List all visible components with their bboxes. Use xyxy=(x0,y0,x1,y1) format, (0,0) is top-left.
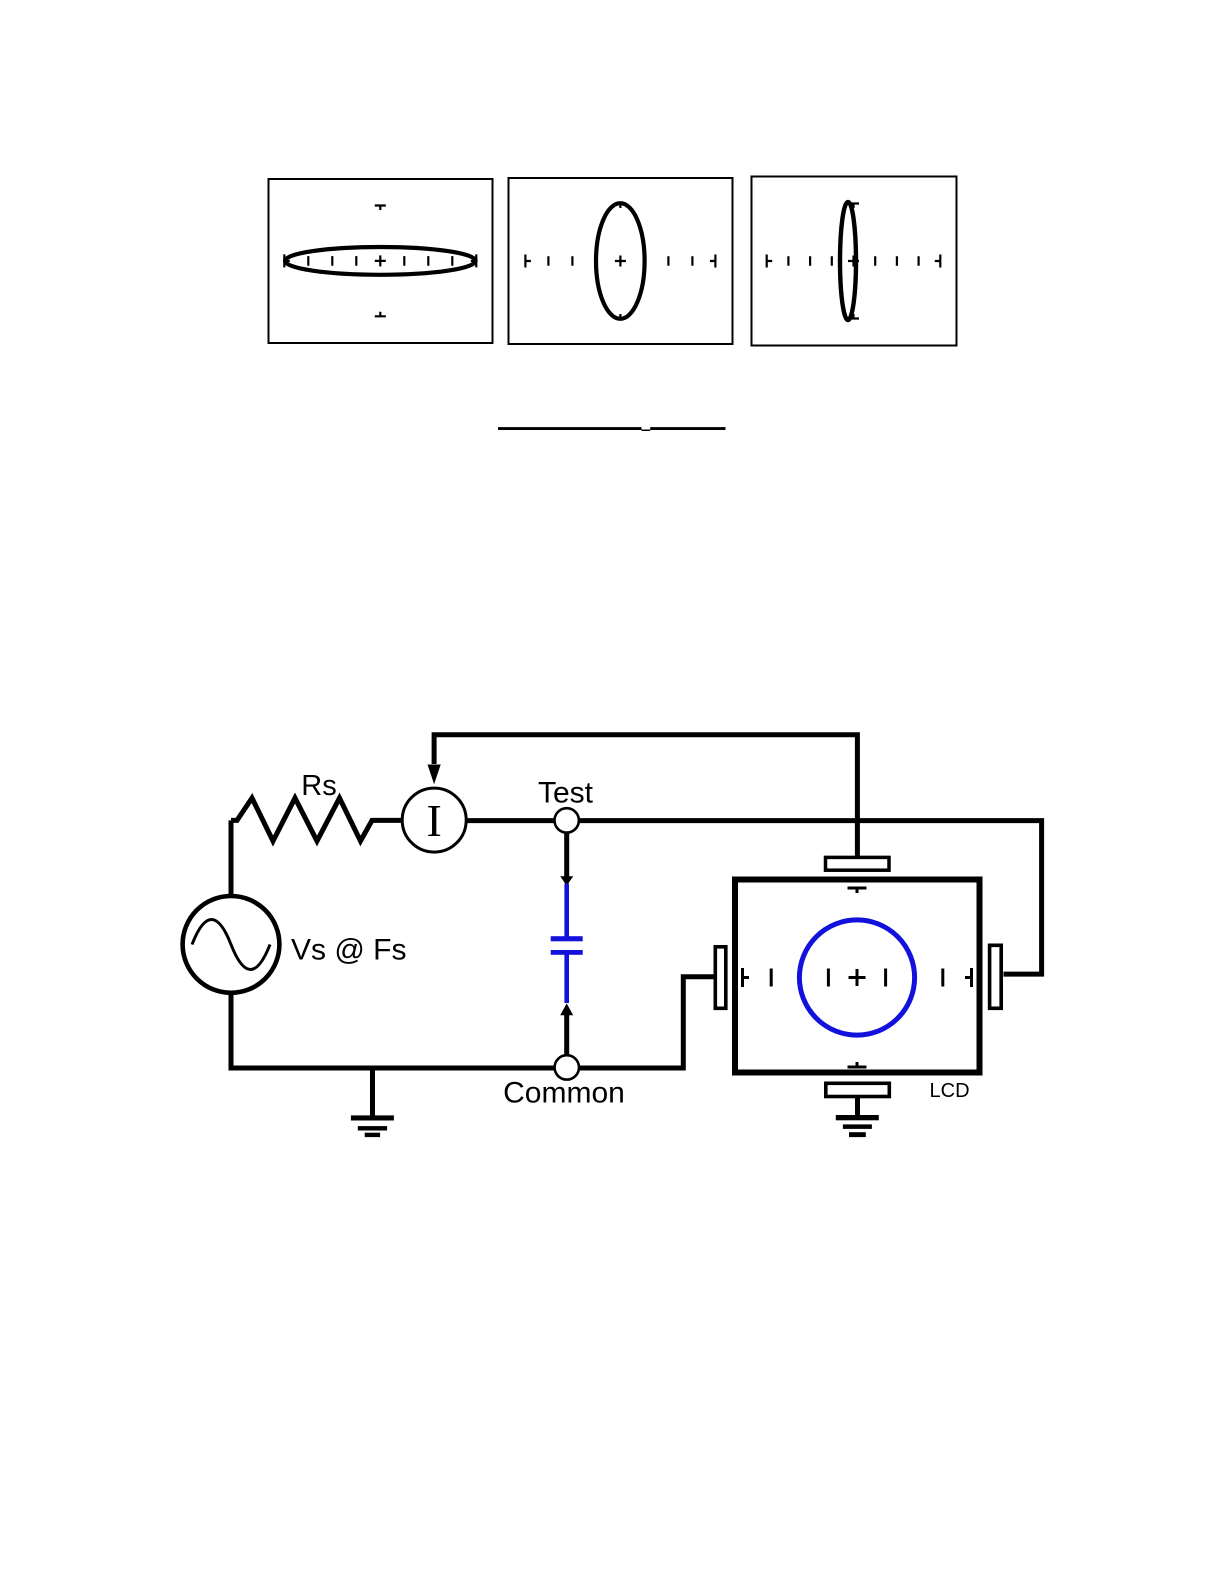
oscilloscope screen 2 frame xyxy=(509,178,733,344)
AC source sine wave xyxy=(192,920,270,970)
LCD graticule ticks xyxy=(771,969,943,987)
svg-text:LCD: LCD xyxy=(930,1080,970,1102)
scope 3 graticule top marker xyxy=(848,204,859,209)
scope 3 graticule right end marker xyxy=(935,255,941,268)
LCD panel box xyxy=(735,880,980,1073)
ground symbol (source) xyxy=(351,1115,394,1137)
wire: bottom rail from source through Common to LCD left pad xyxy=(231,977,714,1068)
svg-text:Common: Common xyxy=(503,1076,625,1109)
scope 2 graticule bottom marker xyxy=(615,314,626,319)
wire: arrow shaft to Common node xyxy=(564,1012,569,1061)
capacitor C (DUT) bottom plate xyxy=(551,950,583,955)
scope 2 graticule left end marker xyxy=(525,255,531,268)
resistor Rs zigzag xyxy=(231,798,403,841)
scope 3 graticule left end marker xyxy=(767,255,773,268)
title underline rule right segment xyxy=(650,427,725,430)
scope 2 Lissajous ellipse trace (near 90 deg) xyxy=(596,203,645,319)
scope 1 graticule center cross xyxy=(375,255,386,266)
scope 3 graticule center cross xyxy=(848,256,859,267)
capacitor top lead (blue) xyxy=(564,884,569,938)
wire: ammeter to Test node and on to right corner, down to LCD right pad xyxy=(466,821,1042,975)
arrowhead up toward capacitor xyxy=(560,1003,573,1015)
LCD displayed circle (blue) xyxy=(799,920,914,1035)
arrowhead into ammeter xyxy=(428,765,441,785)
scope 1 graticule bottom marker xyxy=(375,312,386,317)
scope 1 graticule top marker xyxy=(375,206,386,211)
title underline rule left segment xyxy=(498,427,642,430)
LCD graticule top marker xyxy=(848,888,867,893)
ground stub at bottom rail xyxy=(370,1068,375,1116)
svg-text:Rs: Rs xyxy=(301,770,336,802)
LCD graticule right end marker xyxy=(965,968,972,987)
scope 1 graticule ticks xyxy=(308,256,452,266)
wire: LCD bottom pad to ground xyxy=(855,1097,860,1115)
scope 3 graticule ticks xyxy=(788,256,918,266)
svg-text:I: I xyxy=(427,795,442,846)
title underline rule middle underscore xyxy=(642,430,651,432)
scope 2 graticule ticks xyxy=(548,256,692,266)
scope 1 Lissajous ellipse trace (near 0 deg) xyxy=(285,247,476,275)
scope 1 graticule right end marker xyxy=(471,254,477,267)
scope 2 graticule top marker xyxy=(615,204,626,209)
svg-text:Vs @ Fs: Vs @ Fs xyxy=(291,933,406,966)
LCD bottom electrode pad xyxy=(826,1083,890,1096)
wire: Test node down to capacitor (with arrow) xyxy=(564,825,569,878)
LCD top electrode pad xyxy=(826,857,890,870)
wire: feedback from ammeter top to LCD top pad xyxy=(434,735,857,857)
scope 2 graticule right end marker xyxy=(710,255,716,268)
LCD left electrode pad xyxy=(715,947,726,1009)
capacitor bottom lead (blue) xyxy=(564,952,569,1003)
scope 2 graticule center cross xyxy=(615,256,626,267)
LCD graticule center cross xyxy=(849,969,866,986)
scope 1 graticule left end marker xyxy=(284,254,290,267)
node Test (open circle) xyxy=(555,808,579,832)
ammeter I circle xyxy=(402,788,466,852)
scope 3 graticule bottom marker xyxy=(848,314,859,319)
oscilloscope screen 3 frame xyxy=(752,177,957,346)
LCD graticule bottom marker xyxy=(848,1062,867,1067)
ground symbol (LCD) xyxy=(836,1115,879,1137)
AC source Vs circle xyxy=(183,896,280,993)
oscilloscope screen 1 frame xyxy=(269,179,493,343)
wire: source top to resistor xyxy=(229,820,234,897)
LCD right electrode pad xyxy=(990,945,1002,1008)
svg-text:Test: Test xyxy=(538,776,594,809)
node Common (open circle) xyxy=(555,1055,579,1079)
capacitor C (DUT) top plate xyxy=(551,936,583,941)
scope 3 Lissajous ellipse trace (narrow) xyxy=(840,202,856,320)
LCD graticule left end marker xyxy=(743,968,750,987)
